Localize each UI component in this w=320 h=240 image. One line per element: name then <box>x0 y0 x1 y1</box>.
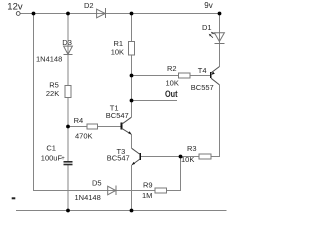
node dot top rail x131 <box>130 12 134 16</box>
transistor T4 (BC557 PNP) <box>211 67 220 85</box>
svg-text:9v: 9v <box>204 1 212 10</box>
svg-text:D2: D2 <box>84 1 94 10</box>
wire T3 base through R3 up to T4 collector <box>141 85 220 157</box>
diode D3 <box>64 46 73 54</box>
node dot ground x131 <box>130 209 134 213</box>
label minus terminal <box>12 197 16 199</box>
capacitor C1 plate bottom <box>64 164 73 166</box>
wire T1 emitter to T3 collector <box>131 135 133 149</box>
svg-text:22K: 22K <box>46 89 59 98</box>
svg-text:10K: 10K <box>181 155 194 164</box>
svg-text:470K: 470K <box>75 132 93 141</box>
svg-text:R4: R4 <box>74 116 84 125</box>
diode D2 <box>97 9 106 18</box>
svg-text:T4: T4 <box>198 66 207 75</box>
node dot top rail x219 (9v) <box>218 12 222 16</box>
wire T3 emitter to ground rail <box>131 165 133 211</box>
resistor R9 <box>155 188 167 193</box>
svg-text:D3: D3 <box>62 38 72 47</box>
svg-text:10K: 10K <box>166 78 179 87</box>
capacitor C1 plate top <box>64 161 73 163</box>
resistor R2 <box>179 73 191 78</box>
LED D1 arrow 1 <box>211 36 213 38</box>
wire Out stub <box>132 100 178 102</box>
wire D3/R5 branch vertical upper <box>67 14 69 162</box>
node dot R2 tap <box>130 74 134 78</box>
resistor R1 <box>129 42 135 56</box>
wire mid vertical R1 branch <box>131 14 133 118</box>
svg-text:100uF: 100uF <box>41 154 63 163</box>
wire top rail 12v to 9v <box>20 13 219 15</box>
svg-text:1M: 1M <box>142 191 152 200</box>
svg-text:BC547: BC547 <box>107 154 130 163</box>
svg-text:D5: D5 <box>92 179 102 188</box>
node dot top rail x33 <box>32 12 36 16</box>
wire R4 node to T1 base <box>68 126 121 128</box>
wire R2 node to T4 base <box>132 75 210 77</box>
resistor R5 <box>65 86 71 98</box>
resistor R4 <box>87 124 98 129</box>
node dot R4 tap <box>66 125 70 129</box>
svg-text:R3: R3 <box>187 144 197 153</box>
wire 12v branch down, bottom D5/R9 run, up to T3 base node <box>34 14 181 191</box>
svg-text:1N4148: 1N4148 <box>36 55 62 64</box>
terminal 12v <box>16 12 20 16</box>
node dot top rail x68 <box>66 12 70 16</box>
diode D5 <box>108 186 116 195</box>
svg-text:C1: C1 <box>46 143 56 152</box>
wire 9v down through D1 to T4 emitter <box>219 14 221 67</box>
svg-text:10K: 10K <box>111 48 124 57</box>
LED D1 <box>214 33 224 42</box>
svg-text:R2: R2 <box>167 64 177 73</box>
LED D1 arrow 2 <box>213 33 214 34</box>
transistor T3 (BC547 NPN mirrored) <box>132 148 141 165</box>
svg-text:BC557: BC557 <box>191 83 214 92</box>
svg-text:BC547: BC547 <box>106 111 129 120</box>
svg-text:Out: Out <box>165 89 178 99</box>
node dot Out tap <box>130 99 134 103</box>
svg-text:12v: 12v <box>7 1 23 12</box>
svg-text:1N4148: 1N4148 <box>75 193 101 202</box>
svg-text:R9: R9 <box>143 181 153 190</box>
wire ground rail <box>16 210 226 212</box>
node dot ground x68 <box>66 209 70 213</box>
resistor R3 <box>199 154 211 159</box>
wire C1 bottom to ground rail <box>67 165 69 210</box>
node dot T3 base / R9 / R3 <box>179 155 183 159</box>
svg-text:D1: D1 <box>202 23 212 32</box>
transistor T1 (BC547 NPN) <box>122 117 132 134</box>
